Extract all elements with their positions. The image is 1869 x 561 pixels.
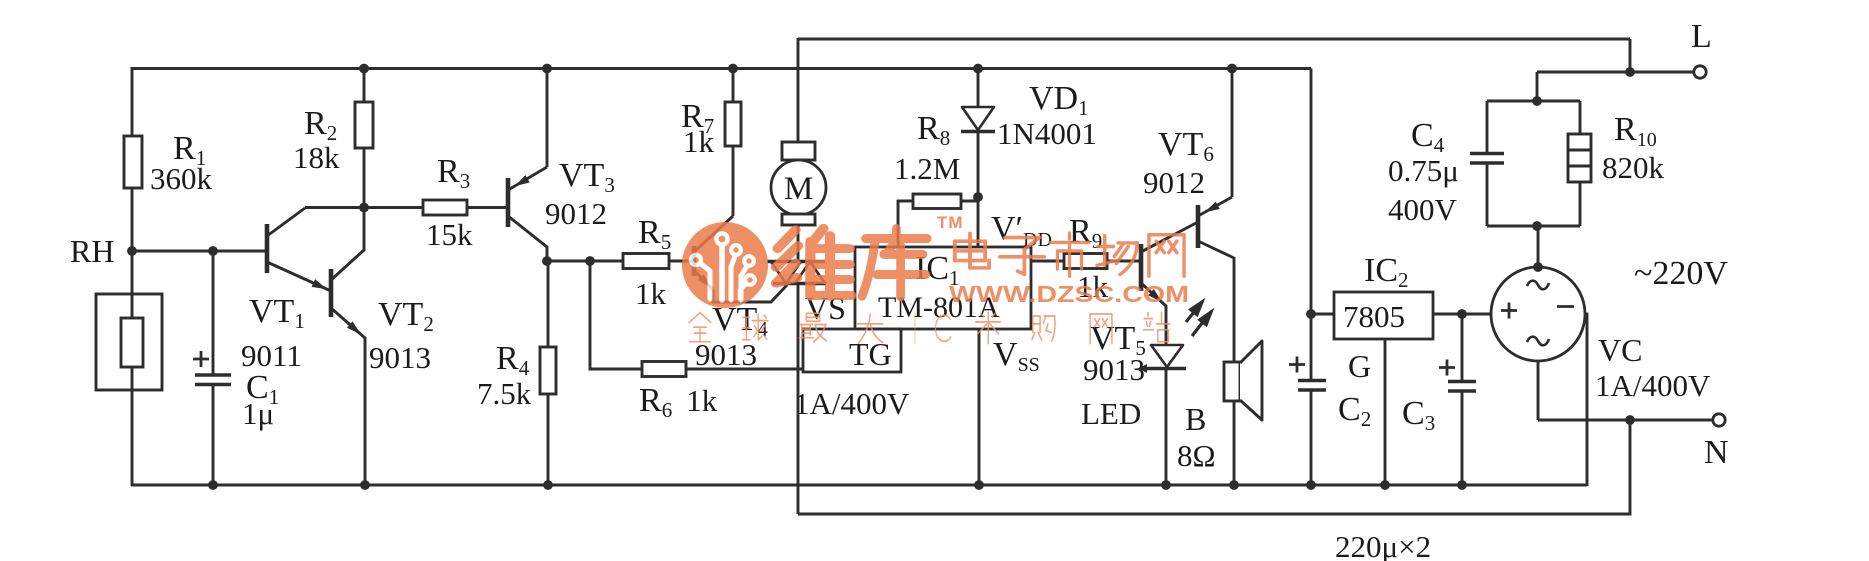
watermark dzsc.com	[682, 213, 1189, 344]
wire C3 bottom	[1461, 391, 1464, 485]
wire L feed vertical	[1536, 72, 1539, 101]
watermark char gou	[1032, 316, 1055, 341]
wire R6 branch	[590, 261, 642, 369]
wire bottom ground rail	[131, 484, 1587, 487]
wire R2 bottom	[363, 148, 366, 208]
node VD1 top rail	[973, 64, 983, 74]
wire left rail upper	[131, 67, 134, 136]
svg-text:9013: 9013	[1083, 352, 1145, 387]
wire VT2 emitter down	[364, 337, 367, 485]
wire R9 to VT5 base	[1107, 260, 1139, 263]
wire L horizontal	[1537, 71, 1694, 74]
svg-text:G: G	[1348, 348, 1371, 384]
wire node row y208	[305, 206, 423, 209]
speaker B	[1224, 362, 1240, 401]
svg-text:15k: 15k	[426, 217, 473, 252]
svg-text:400V: 400V	[1388, 192, 1458, 227]
resistor R4	[540, 347, 556, 394]
watermark char wang2	[1090, 314, 1112, 344]
transistor VT2	[329, 269, 334, 317]
node G ground	[1380, 480, 1390, 490]
node L branch	[1625, 67, 1635, 77]
wire RH sensor column	[131, 251, 134, 318]
wire bridge top	[1537, 226, 1540, 267]
watermark char I	[912, 313, 917, 343]
wire R10 bottom	[1579, 182, 1582, 226]
svg-text:0.75μ: 0.75μ	[1388, 153, 1459, 188]
watermark char shi	[1050, 233, 1089, 276]
wire R8 right leg	[961, 200, 978, 203]
wire motor top	[797, 38, 800, 142]
svg-text:9013: 9013	[369, 340, 431, 375]
watermark char cai	[976, 312, 1001, 343]
svg-text:TG: TG	[849, 336, 892, 372]
wire 7805 out pin	[1311, 313, 1334, 316]
svg-text:LED: LED	[1081, 396, 1141, 431]
motor M	[771, 160, 826, 215]
wire R10 top	[1579, 101, 1582, 134]
node R7 top rail	[728, 64, 738, 74]
wire triac to N	[798, 420, 1630, 514]
wire R7 top	[732, 69, 735, 103]
node VT2 ground	[360, 480, 370, 490]
svg-text:1k: 1k	[683, 124, 715, 159]
wire VD1 anode	[977, 69, 980, 108]
resistor R9	[1064, 254, 1107, 269]
svg-text:18k: 18k	[293, 140, 340, 175]
wire LED to ground	[1165, 368, 1168, 485]
wire sensor-to-bottom	[131, 367, 134, 486]
svg-text:1.2M: 1.2M	[894, 151, 960, 186]
wire motor to triac	[797, 225, 800, 261]
node R4 ground	[543, 480, 553, 490]
node VT3 collector	[542, 256, 552, 266]
watermark char qiu	[743, 314, 768, 340]
node R5R6 split	[585, 256, 595, 266]
motor brush bottom	[782, 214, 815, 225]
resistor R1	[124, 136, 142, 188]
humidity sensor RH outer box	[96, 294, 162, 390]
wire R4 top	[547, 261, 550, 347]
terminal L	[1694, 66, 1706, 78]
svg-text:~220V: ~220V	[1634, 255, 1728, 292]
diode VD1	[962, 107, 994, 130]
wire triac MT1 down	[797, 284, 800, 515]
svg-text:1A/400V: 1A/400V	[1595, 368, 1711, 403]
node R2 top rail	[359, 64, 369, 74]
transistor VT1	[265, 224, 270, 273]
node VT6 emitter rail	[1227, 64, 1237, 74]
humidity sensor RH element	[121, 318, 143, 367]
LED emission arrows	[1186, 299, 1214, 336]
wire R6 to TG	[686, 368, 803, 371]
svg-text:220μ×2: 220μ×2	[1335, 529, 1431, 561]
watermark char wang	[1149, 235, 1184, 276]
wire R4 bottom	[547, 394, 550, 485]
wire bridge minus to ground	[1585, 314, 1587, 486]
capacitor C3	[1461, 314, 1464, 381]
node RH left	[127, 246, 137, 256]
wire R8 left leg	[898, 201, 913, 247]
wire C4R10 bottom bus	[1487, 225, 1580, 228]
node C4R10 bottom	[1532, 221, 1542, 231]
wire 7805 G pin down	[1384, 339, 1387, 485]
triac VS	[767, 260, 825, 263]
capacitor C1	[195, 373, 231, 376]
node bridge top	[1533, 262, 1543, 272]
wire VT5 emitter to LED	[1165, 305, 1168, 345]
node C3 top	[1457, 309, 1467, 319]
wire C1 top	[212, 251, 215, 375]
motor brush top	[782, 142, 815, 160]
wire R2 top	[363, 69, 366, 103]
wire R3 to VT3 base	[467, 206, 506, 209]
svg-text:7.5k: 7.5k	[477, 376, 532, 411]
node C1 top	[208, 246, 218, 256]
svg-text:1k: 1k	[635, 276, 667, 311]
wire R5 to VT4 base	[669, 260, 692, 263]
watermark char chang	[1097, 236, 1137, 275]
svg-text:WWW.DZSC.COM: WWW.DZSC.COM	[949, 281, 1189, 307]
wire +5V feed corner	[1310, 69, 1313, 315]
node base row	[359, 203, 369, 213]
svg-text:9012: 9012	[545, 196, 607, 231]
svg-text:VC: VC	[1598, 332, 1642, 368]
wire 7805 in pin	[1433, 313, 1491, 316]
wire R7 bottom	[732, 146, 735, 216]
resistor R10	[1568, 134, 1591, 182]
resistor R2	[355, 102, 373, 148]
resistor R6	[642, 362, 686, 377]
watermark char zui	[799, 313, 826, 341]
transistor VT6	[1196, 205, 1201, 248]
wire VT6 emitter up	[1231, 69, 1234, 198]
wire VD1 cathode	[977, 131, 980, 197]
wire L rail riser	[1629, 39, 1632, 72]
wire speaker to ground	[1233, 401, 1236, 485]
resistor R5	[623, 254, 669, 269]
watermark char quan	[689, 313, 711, 342]
watermark char dian	[955, 233, 989, 268]
transistor VT4	[692, 246, 697, 276]
node N branch	[1625, 415, 1635, 425]
node VDD R8	[973, 192, 983, 202]
wire top +5V rail	[132, 67, 1311, 70]
node C3 ground	[1457, 480, 1467, 490]
wire VSS pin down	[978, 329, 981, 485]
svg-text:1A/400V: 1A/400V	[794, 386, 910, 421]
wire VT3C node row	[547, 260, 623, 263]
node speaker ground	[1229, 480, 1239, 490]
capacitor C4	[1486, 101, 1489, 152]
node C1 ground	[208, 480, 218, 490]
wire C2 bottom	[1310, 390, 1313, 485]
wire VT6 collector down	[1233, 257, 1236, 362]
node VT3 emitter rail	[542, 64, 552, 74]
IC2 7805 regulator	[1334, 292, 1433, 339]
svg-text:B: B	[1185, 401, 1206, 437]
node C4R10 top	[1532, 96, 1542, 106]
watermark char ku	[862, 228, 927, 296]
wire C4R10 top bus	[1487, 100, 1580, 103]
watermark char wei	[776, 228, 851, 296]
watermark char da	[857, 314, 882, 343]
svg-text:9012: 9012	[1143, 165, 1205, 200]
svg-text:N: N	[1704, 434, 1729, 471]
wire N line	[1538, 419, 1713, 422]
wire RH node to VT1 base	[132, 250, 266, 253]
node LED ground	[1161, 480, 1171, 490]
svg-text:820k: 820k	[1602, 150, 1665, 185]
wire top mains rail	[798, 38, 1630, 41]
svg-text:TM: TM	[937, 213, 964, 232]
svg-text:M: M	[784, 171, 813, 207]
watermark char C	[935, 315, 950, 341]
wire bridge bottom	[1537, 361, 1540, 420]
transistor VT5	[1139, 244, 1144, 291]
svg-text:1N4001: 1N4001	[997, 116, 1097, 151]
node VSS ground	[974, 480, 984, 490]
svg-text:L: L	[1691, 18, 1712, 55]
wire C1 bottom	[212, 384, 215, 485]
transistor VT3	[506, 178, 511, 227]
wire IC to R9	[1031, 260, 1064, 263]
svg-text:1μ: 1μ	[242, 396, 274, 431]
svg-text:9011: 9011	[241, 338, 302, 373]
wire VDD pin	[977, 197, 980, 247]
capacitor C2	[1310, 314, 1313, 380]
resistor R3	[423, 200, 467, 215]
bridge rectifier VC	[1491, 267, 1585, 361]
svg-text:8Ω: 8Ω	[1177, 438, 1216, 473]
svg-text:7805: 7805	[1343, 299, 1405, 334]
svg-text:RH: RH	[70, 233, 114, 269]
resistor R7	[725, 102, 741, 146]
IC pin tab TG	[803, 329, 901, 372]
wire VT3 emitter up	[546, 69, 549, 168]
resistor R8	[913, 194, 961, 209]
node C2 top	[1306, 309, 1316, 319]
terminal N	[1713, 414, 1725, 426]
LED D1	[1151, 345, 1183, 367]
watermark char zi	[1000, 238, 1044, 275]
node C2 ground	[1306, 480, 1316, 490]
watermark char zhan	[1144, 313, 1170, 342]
IC U1 TM-801A	[855, 247, 1031, 329]
wire left rail R1-to-RH	[131, 188, 134, 251]
